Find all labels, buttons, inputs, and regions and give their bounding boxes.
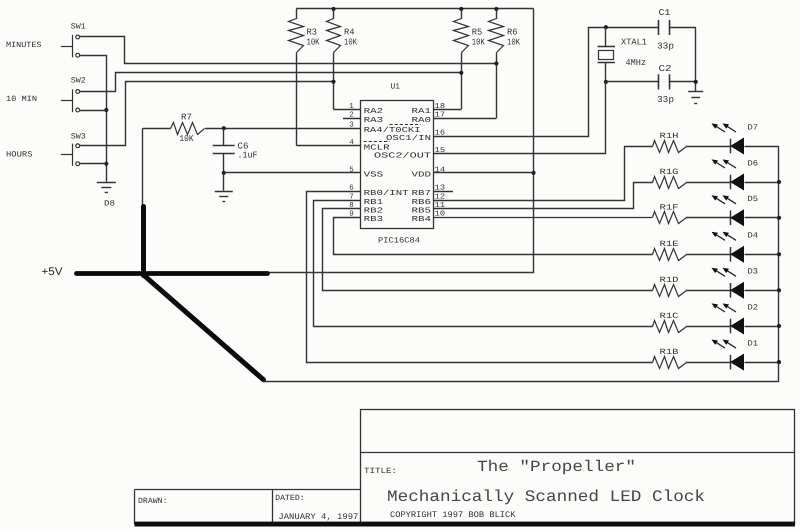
title block outer box	[361, 410, 795, 525]
svg-text:RB7: RB7	[412, 190, 432, 198]
svg-text:The "Propeller": The "Propeller"	[477, 458, 636, 476]
svg-text:VDD: VDD	[412, 172, 432, 180]
wire R3 to MCLR pin4	[296, 145, 361, 147]
svg-text:R6: R6	[507, 28, 518, 38]
svg-text:R4: R4	[344, 28, 355, 38]
wire RB1 pin7 to D2 row	[314, 201, 653, 327]
svg-text:RB1: RB1	[364, 199, 384, 207]
op-amp/IC U1 PIC16C84 body	[361, 101, 434, 229]
svg-text:1: 1	[349, 103, 354, 111]
wire SW1 top contact to R6/RA0 net	[80, 37, 497, 64]
wire SW1 bottom contact to ground rail	[80, 56, 107, 182]
wire R1D to D3	[686, 290, 730, 292]
svg-text:RA1: RA1	[412, 108, 432, 116]
wire VDD pin14	[433, 172, 533, 174]
LED D4	[730, 247, 732, 262]
wire +5V thick vertical	[141, 207, 146, 276]
junction R4/SW3	[331, 80, 335, 84]
pin 13 stub RB7	[433, 191, 453, 193]
overline MCLR	[364, 141, 390, 143]
svg-text:R3: R3	[307, 28, 318, 38]
svg-text:R1B: R1B	[660, 348, 679, 357]
wire R6 to RA0 pin17	[433, 118, 496, 120]
junction R6/SW1	[494, 61, 498, 65]
junction anode rail	[777, 180, 781, 184]
svg-text:TITLE:: TITLE:	[364, 467, 397, 476]
wire SW2 top contact to R5/RA1 net	[80, 73, 462, 92]
wire OSC1 to crystal	[434, 28, 659, 137]
wire RB0 pin6 to D1 row	[307, 192, 653, 363]
LED D2	[730, 319, 732, 334]
resistor R1C	[653, 321, 687, 333]
switch SW2	[72, 89, 74, 112]
junction C2/ground	[694, 80, 698, 84]
svg-text:RA0: RA0	[412, 116, 432, 125]
svg-text:R1H: R1H	[660, 132, 679, 141]
svg-text:10K: 10K	[507, 38, 520, 48]
svg-text:OSC2/OUT: OSC2/OUT	[374, 151, 432, 160]
svg-text:RA2: RA2	[364, 107, 384, 116]
svg-text:MCLR: MCLR	[364, 143, 391, 152]
svg-text:RB6: RB6	[412, 198, 432, 207]
svg-text:D4: D4	[748, 232, 759, 241]
svg-text:SW2: SW2	[71, 77, 86, 86]
svg-text:C1: C1	[659, 8, 671, 18]
wire D7 to anode rail	[745, 146, 780, 148]
junction crystal bottom	[604, 80, 608, 84]
svg-text:R1C: R1C	[660, 312, 679, 321]
svg-text:R1G: R1G	[660, 168, 679, 177]
svg-text:13: 13	[435, 184, 446, 193]
svg-text:.1uF: .1uF	[238, 151, 258, 161]
svg-text:D6: D6	[748, 159, 759, 168]
svg-text:D2: D2	[748, 303, 759, 312]
wire +5V rail down right side	[145, 9, 534, 273]
wire +5V top bus	[296, 8, 533, 10]
wire C1 right leg down	[695, 27, 697, 91]
svg-text:R7: R7	[181, 112, 192, 122]
svg-text:RB0/INT: RB0/INT	[364, 189, 410, 198]
junction R6 top	[494, 7, 498, 11]
svg-text:OSC1/IN: OSC1/IN	[386, 134, 431, 143]
wire RB6 pin12 to D7 row	[434, 147, 653, 201]
resistor R1B	[653, 357, 687, 369]
svg-text:4MHz: 4MHz	[626, 58, 647, 68]
svg-text:4: 4	[349, 139, 354, 147]
svg-text:17: 17	[435, 112, 446, 120]
svg-text:R5: R5	[472, 28, 483, 38]
junction R4 top	[331, 7, 335, 11]
svg-text:RB2: RB2	[364, 207, 384, 216]
resistor R5	[461, 9, 463, 19]
overline T0CKI	[390, 124, 421, 126]
junction SW2 bottom on rail	[104, 108, 108, 112]
wire D5 to anode rail	[745, 217, 780, 219]
svg-text:R1E: R1E	[660, 240, 679, 249]
resistor R4	[333, 9, 335, 19]
svg-text:D7: D7	[748, 123, 759, 132]
resistor R1D	[653, 285, 687, 297]
svg-text:HOURS: HOURS	[6, 151, 33, 160]
ground at C2	[688, 91, 703, 93]
svg-text:DATED:: DATED:	[275, 494, 305, 503]
svg-text:D3: D3	[748, 268, 759, 277]
resistor R7	[143, 128, 171, 130]
wire OSC2 to crystal	[434, 82, 606, 154]
svg-text:DRAWN:: DRAWN:	[138, 497, 168, 506]
svg-text:RB4: RB4	[412, 216, 432, 224]
wire RB5 pin11 to D6 row	[434, 183, 653, 209]
wire +5V thick horizontal	[77, 271, 268, 276]
junction crystal top	[604, 25, 608, 29]
wire D3 to anode rail	[745, 290, 780, 292]
wire R1B to D1	[686, 362, 730, 364]
junction anode rail	[777, 360, 781, 364]
svg-text:D1: D1	[748, 340, 759, 349]
svg-text:COPYRIGHT 1997 BOB BLICK: COPYRIGHT 1997 BOB BLICK	[390, 510, 516, 520]
wire VSS pin5	[224, 172, 361, 174]
svg-text:SW3: SW3	[71, 133, 86, 142]
svg-text:5: 5	[349, 166, 354, 174]
capacitor C6	[223, 128, 225, 145]
wire D4 to anode rail	[745, 254, 780, 256]
svg-text:Mechanically Scanned LED Clock: Mechanically Scanned LED Clock	[387, 488, 705, 506]
wire R5 to RA1 pin18	[433, 109, 461, 111]
switch SW1	[72, 35, 74, 58]
pin 2 stub RA3	[343, 118, 361, 120]
resistor R3	[296, 9, 298, 19]
svg-text:10K: 10K	[472, 38, 485, 48]
junction SW3 bottom on rail	[104, 162, 108, 166]
svg-text:RA4/T0CKI: RA4/T0CKI	[364, 126, 421, 135]
svg-text:RB3: RB3	[364, 215, 384, 224]
title block divider	[361, 452, 795, 454]
wire RB4 pin10 to D5 row	[433, 217, 652, 219]
wire R1G to D6	[686, 182, 730, 184]
svg-text:R1D: R1D	[660, 276, 679, 285]
svg-text:D8: D8	[104, 200, 115, 209]
svg-text:2: 2	[349, 111, 354, 120]
junction anode rail	[777, 324, 781, 328]
capacitor C2	[606, 81, 659, 83]
svg-text:3: 3	[349, 121, 354, 130]
svg-text:33p: 33p	[657, 41, 674, 51]
junction R5/SW2	[459, 71, 463, 75]
svg-text:+5V: +5V	[42, 266, 64, 278]
wire LED anode rail	[264, 147, 779, 382]
crystal XTAL1	[605, 27, 607, 47]
resistor R1E	[653, 249, 687, 261]
ground at C6	[223, 173, 225, 191]
svg-text:10K: 10K	[344, 38, 357, 48]
wire RB3 pin9 to D4 row	[334, 218, 653, 255]
wire R1C to D2	[686, 326, 730, 328]
wire R1F to D5	[686, 217, 730, 219]
junction anode rail	[777, 288, 781, 292]
LED D1	[730, 355, 732, 370]
capacitor C1	[658, 20, 660, 35]
resistor R1H	[653, 141, 687, 153]
junction anode rail	[777, 216, 781, 220]
wire RB2 pin8 to D3 row	[323, 209, 653, 291]
switch SW3	[72, 144, 74, 166]
junction anode rail	[777, 252, 781, 256]
svg-text:SW1: SW1	[71, 22, 86, 31]
wire SW3 top contact to R4/RA2 net	[80, 82, 334, 146]
thick bottom border	[134, 522, 795, 527]
resistor R6	[496, 9, 498, 19]
wire SW3 bottom contact	[80, 163, 107, 165]
svg-text:D5: D5	[748, 195, 759, 204]
svg-text:RB5: RB5	[412, 208, 432, 216]
wire D2 to anode rail	[745, 326, 780, 328]
LED D3	[730, 283, 732, 298]
junction R7/C6	[222, 126, 226, 130]
svg-text:U1: U1	[391, 83, 401, 92]
junction R5 top	[459, 7, 463, 11]
svg-text:JANUARY 4, 1997: JANUARY 4, 1997	[278, 512, 358, 522]
svg-text:R1F: R1F	[660, 204, 679, 213]
resistor R1G	[653, 177, 687, 189]
LED D6	[730, 175, 732, 190]
svg-text:MINUTES: MINUTES	[6, 41, 42, 50]
ground D8	[97, 182, 116, 184]
wire +5V thick diagonal	[145, 276, 264, 380]
drawn/dated box	[134, 489, 361, 491]
wire R1H to D7	[686, 146, 730, 148]
svg-text:RA3: RA3	[364, 116, 384, 125]
junction C6/VSS	[222, 171, 226, 175]
svg-text:PIC16C84: PIC16C84	[378, 236, 420, 245]
LED D5	[730, 211, 732, 226]
svg-text:C2: C2	[659, 64, 672, 74]
svg-text:18: 18	[435, 102, 446, 111]
svg-text:10K: 10K	[307, 38, 320, 48]
wire R4 to RA2 pin1	[334, 109, 362, 111]
wire R7 to +5V	[142, 128, 144, 207]
svg-text:VSS: VSS	[364, 171, 384, 180]
wire D1 to anode rail	[745, 362, 780, 364]
svg-text:10K: 10K	[180, 134, 195, 144]
LED D7	[730, 139, 732, 154]
wire R1E to D4	[686, 254, 730, 256]
resistor R1F	[653, 212, 687, 224]
junction VDD pin14	[531, 171, 535, 175]
svg-text:10 MIN: 10 MIN	[6, 95, 37, 104]
svg-text:33p: 33p	[657, 95, 674, 105]
wire D6 to anode rail	[745, 182, 780, 184]
svg-text:XTAL1: XTAL1	[621, 37, 647, 47]
wire SW2 bottom contact	[80, 110, 107, 112]
